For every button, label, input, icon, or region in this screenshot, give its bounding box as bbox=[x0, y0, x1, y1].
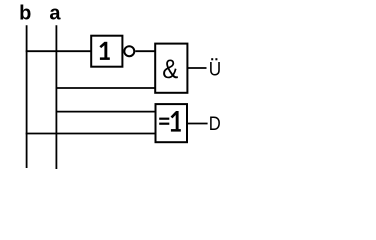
output label Ü bbox=[209, 58, 221, 80]
NOT gate box (1) bbox=[91, 36, 122, 67]
svg-text:a: a bbox=[49, 3, 61, 25]
svg-text:&: & bbox=[162, 54, 178, 84]
wire a to AND input 2 bbox=[56, 87, 155, 89]
svg-text:U: U bbox=[209, 60, 221, 81]
NOT output bubble bbox=[124, 46, 134, 56]
wire XOR output bbox=[187, 123, 208, 125]
AND gate box (&) bbox=[155, 44, 187, 93]
wire bubble to AND input 1 bbox=[135, 50, 155, 52]
NOT gate label 1 bbox=[100, 42, 110, 60]
wire a to XOR input 1 bbox=[56, 111, 155, 113]
wire bus b vertical bbox=[26, 25, 28, 168]
XOR gate label =1 bbox=[159, 111, 181, 132]
wire b to NOT input bbox=[26, 50, 92, 52]
wire b to XOR input 2 bbox=[26, 133, 156, 135]
svg-text:D: D bbox=[209, 114, 221, 135]
wire bus a vertical bbox=[55, 25, 57, 169]
svg-text:b: b bbox=[19, 3, 31, 25]
wire AND output bbox=[187, 67, 206, 69]
XOR gate box (=1) bbox=[156, 104, 188, 142]
